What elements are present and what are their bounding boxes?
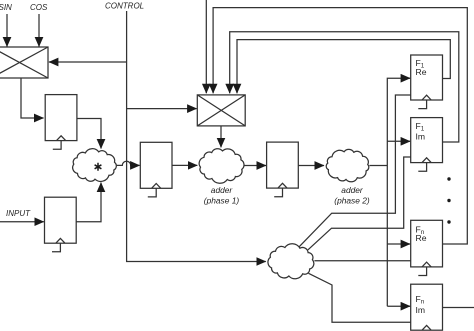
svg-text:SIN: SIN	[0, 3, 12, 12]
svg-text:INPUT: INPUT	[6, 209, 31, 218]
wire bus to FnIm	[387, 305, 410, 307]
multiplier M2	[197, 95, 245, 126]
wire CONTROL net	[127, 11, 266, 262]
svg-text:(phase 1): (phase 1)	[204, 196, 240, 206]
multiplier M1	[0, 47, 48, 78]
wire F1Re feedback	[237, 40, 450, 94]
wire R4 to adder2	[298, 165, 324, 167]
wire control to M1	[49, 61, 127, 63]
wire R1 to multiply cloud	[77, 119, 101, 149]
wire FnRe feedback	[213, 8, 467, 244]
multiply asterisk	[95, 163, 102, 171]
wire FnIm output	[443, 307, 474, 309]
wire SIN input	[6, 14, 8, 47]
wire F1Im feedback	[230, 32, 459, 142]
wire control to M2	[127, 108, 197, 110]
svg-text:CONTROL: CONTROL	[105, 2, 144, 11]
svg-text:adder: adder	[211, 185, 234, 195]
svg-text:Re: Re	[416, 67, 427, 77]
wire select B to F1Im	[308, 157, 411, 250]
multiply cloud	[73, 149, 117, 182]
adder phase2 cloud	[326, 149, 369, 181]
adder phase1 cloud	[199, 149, 244, 184]
register R4	[267, 142, 299, 188]
svg-text:Im: Im	[416, 132, 426, 142]
wire cloud to R3	[117, 161, 140, 165]
wire R3 to adder1	[172, 164, 197, 166]
wire M2 to adder1	[220, 126, 222, 147]
ellipsis dots	[447, 177, 450, 223]
wire R2 to multiply cloud	[76, 183, 101, 222]
wire select A to F1Re	[299, 95, 411, 247]
register R1	[45, 95, 77, 141]
svg-text:Im: Im	[416, 305, 426, 315]
wire bus to F1Im	[387, 140, 410, 142]
wire M1 to R1	[21, 78, 44, 118]
selector cloud	[268, 244, 314, 279]
svg-text:COS: COS	[30, 3, 48, 12]
register R3	[140, 142, 172, 188]
wire INPUT	[0, 221, 44, 223]
wire COS input	[38, 14, 40, 47]
svg-text:Re: Re	[416, 233, 427, 243]
register Fn Re	[411, 220, 443, 267]
register F1 Re	[411, 55, 443, 100]
wire adder1 to R4	[244, 165, 266, 167]
register F1 Im	[411, 118, 443, 163]
wire result bus vertical	[387, 78, 410, 306]
svg-text:adder: adder	[341, 185, 364, 195]
register R2 input	[45, 197, 77, 243]
wire FnIm feedback vertical	[205, 0, 207, 93]
wire adder2 output bus	[369, 165, 387, 167]
wire select D to FnIm	[309, 273, 412, 322]
register Fn Im	[411, 284, 443, 330]
svg-text:(phase 2): (phase 2)	[334, 196, 370, 206]
wire select C to FnRe	[314, 260, 411, 262]
wire bus to FnRe	[387, 243, 410, 245]
